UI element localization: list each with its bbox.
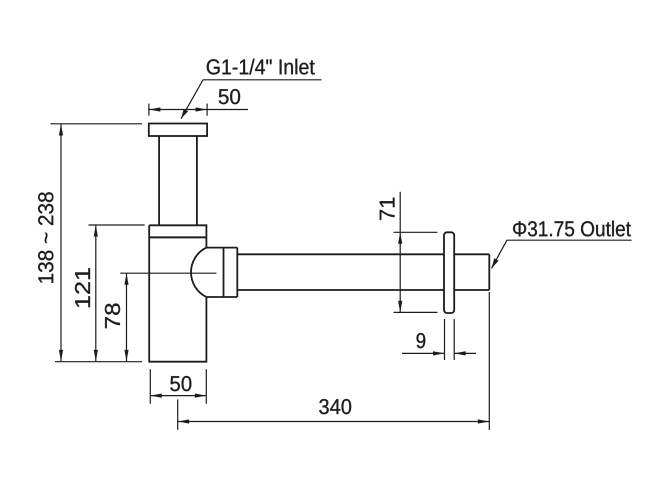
dim 71: vertical dimension line with tail (399, 192, 401, 312)
arrowhead inlet leader (181, 109, 188, 119)
dim 9: right extension line (453, 319, 455, 360)
label Phi 31.75 Outlet (513, 221, 631, 237)
dim 9: left dimension line segment (402, 352, 445, 354)
arrowhead dim50top left (149, 107, 161, 111)
dim 71: bottom extension line (394, 311, 438, 313)
dim 71: top extension line (394, 231, 438, 233)
label 121 (75, 268, 90, 307)
body lid seam (149, 236, 206, 238)
label 50 bottom (170, 376, 191, 391)
dim 50 bottom: dimension line (150, 395, 206, 397)
arrowhead outlet leader (492, 258, 499, 268)
vertical inlet pipe wall right (196, 136, 198, 225)
dim 50 top: dimension line with tail (149, 109, 248, 111)
dim 9: left extension line (444, 319, 446, 360)
dim 138~238: top extension line (50, 123, 142, 125)
arrowhead dim138 bottom (59, 350, 63, 362)
arrowhead dim50bottom left (150, 394, 162, 398)
dim 50 top: right extension line (206, 104, 208, 116)
label G1-1/4 Inlet (207, 59, 315, 75)
horizontal outlet pipe bottom wall (237, 289, 489, 291)
inlet flange (top cap) (149, 124, 207, 137)
arrowhead dim71 bottom (398, 301, 402, 313)
elbow top edge (206, 247, 237, 249)
elbow nut right edge (236, 248, 238, 297)
label 340 (319, 399, 351, 414)
dim 50 top: left extension line (148, 104, 150, 116)
arrowhead dim9 right (points left) (454, 351, 466, 355)
elbow bottom edge (206, 296, 237, 298)
dim 121: top extension line (89, 224, 145, 226)
horizontal outlet pipe top wall (237, 253, 489, 255)
elbow dome arc (191, 248, 206, 297)
dim 50 bottom: right extension line (205, 369, 207, 404)
arrowhead dim121 top (94, 225, 98, 237)
shared bottom extension line (55, 361, 142, 363)
arrowhead dim121 bottom (94, 350, 98, 362)
arrowhead dim138 top (59, 124, 63, 136)
dim 50 bottom: left extension line (149, 369, 151, 404)
trap body (cup) outline (149, 225, 206, 361)
label 138 ~ 238 (38, 192, 53, 283)
dim 340: dimension line (178, 421, 490, 423)
elbow dome/nut seam (223, 248, 225, 297)
wall escutcheon flange (444, 232, 454, 313)
dim 78: vertical dimension line (126, 273, 128, 361)
vertical inlet pipe wall left (158, 136, 160, 225)
dim 340: right extension line (488, 292, 490, 430)
centerline through elbow (dim 78 top extension) (120, 272, 216, 274)
arrowhead dim78 top (124, 273, 128, 285)
arrowhead dim71 top (398, 232, 402, 244)
outlet pipe end face (488, 254, 490, 290)
label 50 top (219, 89, 240, 104)
arrowhead dim50top right (196, 107, 208, 111)
outlet leader line (492, 240, 632, 268)
label 78 (105, 303, 120, 328)
arrowhead dim340 left (178, 419, 190, 423)
dim 9: right dimension line segment (454, 352, 476, 354)
dim 340: left extension line (177, 399, 179, 429)
label 71 (380, 198, 395, 220)
dim 121: vertical dimension line (95, 225, 97, 361)
inlet leader line (181, 80, 322, 119)
label 9 (417, 333, 426, 348)
dim 138~238: vertical dimension line (60, 124, 62, 361)
arrowhead dim78 bottom (124, 350, 128, 362)
arrowhead dim50bottom right (195, 394, 207, 398)
arrowhead dim9 left (points right) (433, 351, 445, 355)
arrowhead dim340 right (478, 419, 490, 423)
